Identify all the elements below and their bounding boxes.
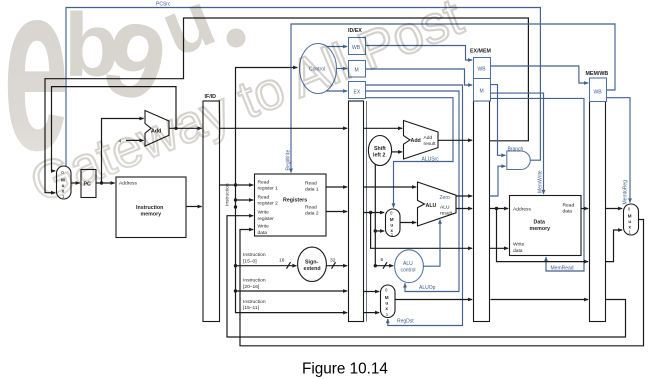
svg-text:Figure 10.14: Figure 10.14: [302, 361, 388, 378]
svg-text:control: control: [401, 267, 416, 273]
mux M3 RegDst: [381, 285, 396, 318]
node instruction junction 1: [234, 183, 237, 186]
svg-text:EX: EX: [354, 90, 361, 96]
svg-text:ALU: ALU: [403, 261, 413, 267]
wire ID/EX WB to EX/MEM WB: [366, 46, 473, 61]
wire EX/MEM WB to MEM/WB WB: [491, 66, 589, 83]
adder branch Add: [404, 121, 439, 160]
svg-text:u: u: [390, 223, 393, 228]
control box MEM/WB WB: [590, 78, 607, 102]
svg-text:Instruction: Instruction: [243, 252, 266, 258]
wire ALUSrc control (EX box to ALUSrc mux): [366, 98, 454, 208]
svg-text:32: 32: [330, 258, 336, 264]
wire PC to Add: [102, 119, 144, 184]
slash 32 bits: [332, 262, 336, 269]
wire PC+4 feedback (Add output to PC mux input 0): [52, 87, 177, 171]
watermark group: [3, 0, 471, 214]
alu ALU: [418, 182, 457, 226]
node Read data 2 junction: [369, 211, 372, 214]
wire instruction 20-16 to ID/EX: [236, 266, 348, 291]
svg-text:register 1: register 1: [258, 186, 279, 192]
svg-text:memory: memory: [141, 212, 162, 218]
watermark dot: [227, 29, 246, 48]
node immediate junction at mux: [374, 229, 377, 232]
wire instruction bus from IF/ID: [220, 184, 236, 186]
pipeline register ID/EX: [349, 101, 364, 322]
wire ID/EX M to EX/MEM M: [366, 69, 473, 85]
pipeline register EX/MEM: [474, 101, 490, 322]
svg-text:ALU: ALU: [426, 203, 437, 209]
node instruction junction 4: [234, 289, 237, 292]
svg-text:Sign-: Sign-: [305, 259, 318, 265]
wire instruction to Control: [236, 68, 298, 186]
svg-text:Instruction: Instruction: [136, 205, 163, 211]
wire Read data 2 to ID/EX: [326, 211, 347, 213]
svg-text:[15–11]: [15–11]: [243, 305, 260, 311]
wire mux to PC: [71, 182, 80, 184]
svg-text:Read: Read: [258, 179, 270, 185]
wire Control to WB: [327, 46, 348, 48]
mux M4 MemtoReg: [624, 204, 639, 235]
and gate Branch AND Zero: [507, 151, 531, 170]
svg-text:Read: Read: [563, 202, 575, 208]
alu control unit: [395, 250, 424, 283]
svg-text:Instruction: Instruction: [243, 299, 266, 305]
svg-text:Add: Add: [424, 135, 433, 141]
svg-text:16: 16: [279, 258, 285, 264]
wire Zero EX/MEM to AND gate: [490, 166, 506, 196]
adder Add (PC+4): [145, 111, 169, 147]
wire immediate to ALU control with 6 slash: [375, 265, 393, 267]
svg-text:data 1: data 1: [305, 187, 319, 193]
control unit Control: [300, 44, 337, 94]
mux M2 ALUSrc: [386, 209, 401, 237]
svg-text:RegWrite: RegWrite: [286, 150, 292, 171]
svg-text:data: data: [258, 230, 268, 236]
svg-text:extend: extend: [304, 266, 321, 272]
slash 6 bits: [383, 262, 387, 269]
wire immediate branch to ALUSrc mux input 1: [375, 230, 384, 232]
wire write data EX/MEM to data memory: [490, 247, 509, 249]
wire MemtoReg control to final mux: [607, 98, 631, 203]
svg-text:ALUSrc: ALUSrc: [422, 156, 440, 162]
svg-text:Instruction: Instruction: [243, 278, 266, 284]
node ALU result junction: [495, 207, 498, 210]
svg-text:Instruction: Instruction: [224, 183, 230, 206]
node instruction junction 2: [234, 198, 237, 201]
slash 16 bits: [287, 262, 291, 269]
svg-text:M: M: [390, 217, 394, 222]
svg-text:ALU: ALU: [440, 205, 450, 211]
wire Read data 1 to ID/EX: [326, 186, 347, 188]
svg-text:ALUOp: ALUOp: [419, 285, 436, 291]
wire MemRead control to data memory: [491, 98, 585, 271]
svg-text:data: data: [563, 209, 573, 215]
svg-text:x: x: [385, 306, 388, 311]
wire branch Add result to EX/MEM: [438, 139, 472, 141]
svg-text:M: M: [628, 214, 632, 219]
wire instruction 15-11 to ID/EX: [236, 291, 348, 313]
register PC: [81, 170, 96, 198]
svg-text:6: 6: [381, 257, 384, 263]
wire branch target feedback (EX/MEM to PC mux input 1): [45, 18, 528, 193]
svg-text:left 2: left 2: [373, 152, 385, 158]
wire RegDst control (EX box to RegDst mux): [366, 85, 463, 326]
pipeline register MEM/WB: [590, 101, 606, 322]
register file Registers: [255, 174, 327, 236]
node immediate junction 2: [374, 264, 377, 267]
control box EX/MEM M: [474, 79, 491, 102]
svg-text:Read: Read: [258, 194, 270, 200]
node instruction junction 2b: [234, 205, 237, 208]
wire RegWrite (MEM/WB WB to Registers): [291, 24, 615, 173]
svg-text:Add: Add: [411, 138, 421, 144]
wire PC+4 IF/ID to ID/EX: [220, 127, 348, 129]
wire shift left 2 to branch Add: [391, 151, 402, 153]
svg-text:Write: Write: [258, 210, 270, 216]
data memory: [510, 196, 582, 256]
control box ID/EX M: [349, 61, 366, 78]
wire ALU Zero to EX/MEM: [456, 195, 472, 197]
node PC output junction: [100, 181, 103, 184]
wire constant 4 into Add: [126, 139, 144, 141]
instruction memory: [116, 177, 186, 238]
svg-text:Registers: Registers: [283, 198, 307, 204]
wire instruction 20-16 ID/EX to RegDst mux: [364, 291, 380, 293]
control box ID/EX WB: [349, 38, 366, 55]
wire sign extend to ID/EX: [326, 265, 347, 267]
svg-text:M: M: [385, 295, 389, 300]
svg-text:register 2: register 2: [258, 201, 279, 207]
wire ALUOp control (EX box to ALU control): [366, 91, 460, 292]
svg-text:WB: WB: [478, 66, 487, 72]
svg-text:Read: Read: [305, 180, 317, 186]
ID/EX double edge line: [366, 101, 368, 322]
svg-text:Read: Read: [305, 204, 317, 210]
wire instruction memory to IF/ID: [186, 206, 202, 208]
wire instruction to Read register 2: [236, 185, 254, 200]
wire instruction to Read register 1: [236, 184, 254, 186]
wire immediate to shift left 2 and ALUSrc mux: [374, 164, 376, 265]
svg-text:WB: WB: [594, 89, 603, 95]
shift left 2 unit: [368, 136, 391, 166]
wire Add output to IF/ID: [169, 127, 202, 129]
sign extend unit: [298, 247, 327, 281]
wire write back data loop (final mux to Registers write data): [240, 220, 644, 346]
svg-text:register: register: [258, 216, 275, 222]
wire Branch control to AND gate: [491, 85, 506, 156]
svg-text:MemWrite: MemWrite: [538, 170, 544, 193]
wire Read data 2 to EX/MEM write data: [371, 213, 473, 249]
svg-text:data: data: [513, 248, 523, 254]
wire Read data 2 ID/EX to ALUSrc mux input 0: [364, 212, 385, 214]
wire instruction 15-11 ID/EX to RegDst mux: [364, 312, 380, 314]
wire ALU result bypass MEM/WB to final mux input 1: [606, 230, 623, 262]
svg-text:[15–0]: [15–0]: [243, 258, 257, 264]
svg-text:MemRead: MemRead: [551, 265, 574, 271]
wire write register number EX/MEM to MEM/WB: [491, 299, 589, 301]
node instruction junction 3: [234, 264, 237, 267]
wire ALU result to EX/MEM: [456, 208, 472, 210]
svg-text:data 2: data 2: [305, 211, 319, 217]
wire RegDst mux to EX/MEM: [395, 299, 472, 301]
svg-text:MemtoReg: MemtoReg: [623, 180, 629, 205]
wire ALU result bypass to MEM/WB: [497, 209, 589, 262]
svg-text:result: result: [440, 211, 453, 217]
svg-text:M: M: [480, 89, 484, 95]
svg-text:memory: memory: [530, 226, 551, 232]
node Add output junction: [174, 127, 177, 130]
wire PC+4 ID/EX to branch Add: [364, 127, 403, 129]
mux M1 PC source: [57, 166, 72, 199]
svg-text:MEM/WB: MEM/WB: [586, 71, 609, 77]
wire ALU control to ALU: [423, 220, 440, 267]
wire PC to instruction memory: [96, 182, 115, 184]
svg-text:RegDst: RegDst: [397, 318, 414, 324]
wire write register number loop (MEM/WB to Registers write register): [227, 216, 626, 337]
wire read data MEM/WB to final mux input 0: [606, 208, 623, 210]
svg-text:u: u: [385, 301, 388, 306]
svg-text:Write: Write: [513, 242, 525, 248]
wire ALU result EX/MEM to data memory address: [490, 208, 509, 210]
wire data memory read data to MEM/WB: [581, 208, 588, 210]
control box EX/MEM WB: [474, 58, 491, 79]
svg-text:Address: Address: [513, 207, 531, 213]
control box ID/EX EX: [349, 82, 366, 99]
svg-text:Shift: Shift: [374, 146, 386, 152]
svg-text:result: result: [424, 141, 437, 147]
wire instruction 15-0 to sign extend: [236, 200, 297, 266]
svg-text:Zero: Zero: [440, 195, 451, 201]
wire PCSrc (blue, AND gate to PC mux select): [66, 8, 540, 167]
svg-text:u: u: [628, 219, 631, 224]
svg-text:EX/MEM: EX/MEM: [470, 48, 491, 54]
pipeline register IF/ID: [203, 101, 220, 322]
wire Control to EX: [327, 90, 348, 92]
svg-text:Data: Data: [534, 219, 546, 225]
svg-text:[20–16]: [20–16]: [243, 284, 260, 290]
wire Control to M: [337, 68, 348, 70]
svg-text:Write: Write: [258, 224, 270, 230]
wire ALUSrc mux to ALU: [400, 222, 416, 224]
wire MemWrite control to data memory: [491, 93, 544, 194]
wire Read data 1 ID/EX to ALU: [364, 186, 417, 188]
